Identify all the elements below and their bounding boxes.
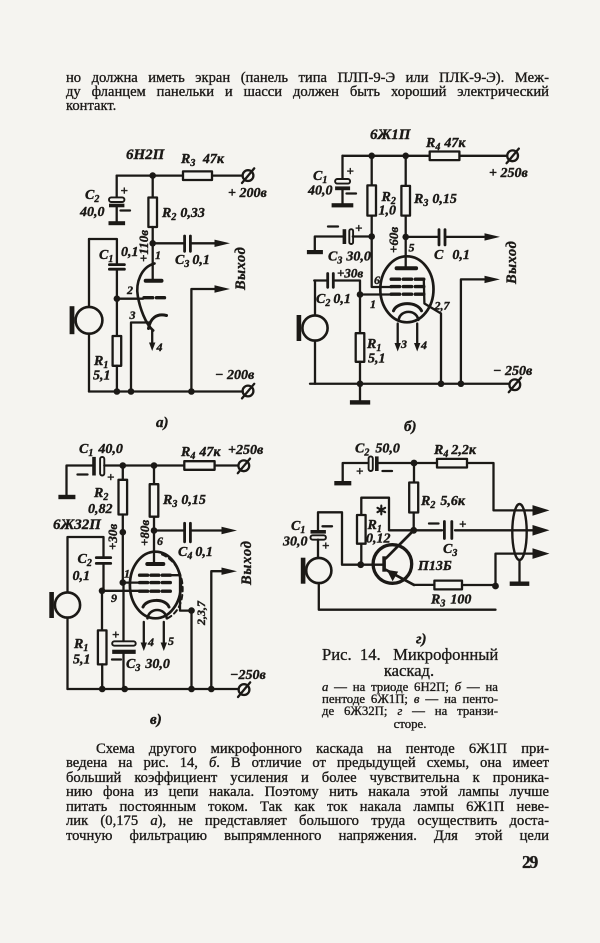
microphone M1 (70, 239, 103, 392)
svg-text:R42,2к: R42,2к (433, 443, 477, 460)
microphone M4 (301, 558, 332, 584)
terminal -250в (509, 378, 521, 393)
node R3-rail v (151, 462, 158, 469)
polarity - of C1 (347, 192, 357, 194)
output arrow 1 of b (485, 233, 501, 240)
cathode arc (394, 304, 422, 311)
svg-text:C250,0: C250,0 (355, 442, 400, 459)
grid dashes (144, 296, 165, 299)
svg-text:6Ж1П: 6Ж1П (370, 127, 412, 143)
emitter to R3 (414, 584, 434, 586)
anode bar v (147, 562, 163, 566)
terminal +250в v (238, 459, 250, 474)
grid row 3 (391, 293, 424, 296)
resistor R2 (367, 156, 376, 237)
resistor R2 (148, 176, 157, 244)
svg-text:б): б) (404, 419, 416, 435)
node grid junction b (357, 291, 364, 298)
node R1-rail b (357, 380, 364, 387)
grid row 2 v (140, 581, 171, 584)
wire cathode pin3 (131, 323, 149, 392)
terminal -250в v (238, 682, 250, 697)
chassis bar at C3 (307, 250, 323, 254)
node C1-rail (368, 153, 375, 160)
page number (522, 852, 537, 873)
polarity - of C1 (78, 473, 88, 475)
grid row 1 v (140, 574, 171, 577)
capacitor C4 0,1 (154, 523, 222, 542)
node anode-supply junction (149, 172, 156, 179)
chassis bar at C2 g (334, 481, 351, 485)
capacitor C coupling (406, 230, 484, 245)
resistor R1 (356, 295, 365, 384)
resistor R3 (183, 171, 212, 180)
heater hump (399, 312, 419, 320)
svg-text:5,1: 5,1 (93, 369, 111, 384)
label asterisk (378, 506, 386, 515)
svg-text:C3: C3 (443, 542, 457, 559)
bottom paragraph (66, 742, 549, 844)
wire control grid pin 1 (360, 293, 392, 295)
polarity - of C3 (328, 225, 338, 227)
svg-text:+: + (112, 627, 119, 642)
resistor R1 v (98, 591, 107, 689)
svg-text:C1: C1 (291, 519, 305, 536)
chassis bar under C1 (332, 203, 354, 207)
base lead (361, 564, 383, 566)
svg-text:C2: C2 (78, 552, 92, 569)
wire top rail b (343, 155, 508, 157)
envelope (130, 552, 181, 619)
node output-rail v (208, 686, 215, 693)
terminal -200в (242, 384, 254, 399)
output arrow 2 g (533, 525, 550, 536)
heater arrow pin 4 (151, 331, 153, 345)
wire C1 branch top (89, 239, 117, 263)
wire top rail v (123, 464, 239, 466)
svg-text:R3100: R3100 (430, 593, 471, 610)
emitter arrowhead (387, 570, 398, 581)
svg-text:+: + (347, 164, 354, 179)
node R3-rail (402, 153, 409, 160)
wire grid3 pin 9 v (102, 590, 140, 592)
polarity - of C3 v (112, 658, 121, 660)
svg-text:3: 3 (400, 337, 407, 351)
chassis bar under C2 (109, 221, 126, 225)
wire top rail a (117, 174, 243, 176)
cathode arc v (143, 600, 169, 607)
terminal +200в (242, 168, 254, 183)
wire screen feed pin 6 (372, 237, 392, 288)
svg-text:R3 47к: R3 47к (180, 152, 225, 169)
ground stub below cable (518, 560, 520, 582)
svg-text:6Ж32П: 6Ж32П (53, 517, 102, 533)
anode bar (146, 279, 162, 283)
heater arrow pin 4 v (143, 622, 145, 644)
output arrow 1 of v (222, 527, 238, 534)
svg-text:+ 200в: + 200в (228, 186, 267, 201)
wire output tap 2 (461, 279, 484, 383)
svg-text:R30,15: R30,15 (162, 493, 206, 510)
node anode of tube a (149, 240, 156, 247)
node collector g (410, 527, 417, 534)
svg-text:C30,1: C30,1 (175, 253, 210, 270)
wire bottom rail b (310, 383, 509, 385)
svg-text:+30в: +30в (105, 524, 120, 550)
svg-text:C1: C1 (99, 248, 113, 265)
svg-text:+: + (356, 464, 363, 479)
capacitor C1 40,0 (67, 457, 123, 495)
node cathode-rail b (438, 380, 445, 387)
envelope arc (137, 264, 154, 331)
svg-text:6: 6 (157, 534, 163, 548)
svg-text:+250в: +250в (228, 443, 264, 458)
shield dashed arc (162, 555, 183, 619)
svg-text:1: 1 (370, 297, 376, 311)
capacitor C2 50,0 g (343, 456, 414, 481)
ground stub b (359, 384, 361, 400)
node screen tap v (120, 529, 127, 536)
svg-text:+30в: +30в (337, 266, 363, 281)
svg-text:30,0: 30,0 (282, 535, 308, 550)
svg-text:4: 4 (147, 635, 154, 649)
svg-text:6: 6 (374, 273, 380, 287)
svg-text:6Н2П: 6Н2П (126, 147, 166, 163)
svg-text:5,1: 5,1 (368, 352, 386, 367)
heater arrow pin 5 v (163, 622, 165, 644)
svg-text:+ 250в: + 250в (489, 166, 528, 181)
svg-text:+60в: +60в (386, 227, 401, 253)
svg-text:C330,0: C330,0 (126, 657, 170, 674)
capacitor C2 0,1 v (68, 537, 111, 592)
node grid1 junction v (120, 579, 127, 586)
svg-text:R30,15: R30,15 (413, 192, 457, 209)
resistor R3 v (150, 466, 159, 531)
svg-text:Выход: Выход (233, 247, 249, 291)
svg-text:4: 4 (420, 338, 427, 352)
wire R4 to cable (467, 463, 533, 510)
envelope (380, 256, 433, 322)
pentode tube V3 (130, 531, 192, 652)
ground bar below cable (510, 582, 530, 586)
svg-text:R447к: R447к (180, 445, 221, 462)
output arrow 2 of v (222, 568, 238, 575)
svg-text:а): а) (156, 415, 169, 431)
wire R3 to node g (462, 584, 496, 586)
capacitor C1 40,0 electrolytic (335, 156, 350, 203)
polarity - of C2 (121, 209, 131, 211)
emitter lead diagonal (386, 570, 414, 585)
node screen-R2 junction (368, 233, 375, 240)
wire bottom rail g (319, 583, 496, 610)
microphone M2 (297, 281, 328, 384)
svg-text:9: 9 (111, 591, 117, 605)
resistor R3 (401, 156, 410, 237)
capacitor C1 30,0 g (311, 512, 358, 564)
svg-text:0,82: 0,82 (88, 502, 113, 517)
svg-text:R20,33: R20,33 (161, 206, 205, 223)
svg-text:1: 1 (124, 567, 130, 581)
grid row 2 (391, 285, 424, 288)
terminal +250в (507, 149, 519, 164)
node output-rail (188, 388, 195, 395)
heater arrow pin 3 (397, 324, 399, 345)
node C3-rail v (121, 686, 128, 693)
resistor R1 g with loop to collector (357, 498, 414, 565)
svg-text:5,1: 5,1 (73, 653, 91, 668)
heater arrow pin 4 (416, 324, 418, 345)
node shield-rail v (188, 686, 195, 693)
pentode tube V2 (380, 237, 450, 384)
wire grid1 pin 1 v (123, 581, 140, 583)
svg-text:2,7: 2,7 (434, 299, 451, 313)
node R1-rail (114, 388, 121, 395)
base bar (382, 556, 386, 571)
heater hump v (148, 610, 167, 618)
svg-text:+: + (107, 470, 114, 485)
wire C1 to grid node (116, 271, 118, 299)
wire output tap 2 v (211, 571, 222, 689)
svg-text:5: 5 (168, 634, 174, 648)
capacitor C3 coupling (153, 236, 215, 251)
svg-text:R2: R2 (93, 486, 108, 503)
anode bar (397, 266, 417, 270)
cathode hook (149, 315, 167, 329)
svg-text:R25,6к: R25,6к (420, 494, 466, 511)
svg-text:− 250в: − 250в (493, 364, 533, 379)
svg-text:40,0: 40,0 (307, 184, 333, 199)
node anode R3 junction (402, 234, 409, 241)
anode lead (405, 237, 407, 266)
svg-text:C330,0: C330,0 (328, 250, 371, 267)
svg-text:R447к: R447к (425, 136, 466, 153)
ground bar b (350, 400, 370, 404)
svg-text:П13Б: П13Б (417, 559, 452, 574)
capacitor C3 30,0 (315, 229, 372, 250)
output arrow 2 of a (215, 285, 231, 292)
chassis bar at C1 (58, 495, 75, 499)
svg-text:− 200в: − 200в (215, 368, 255, 383)
output arrow 2 of b (485, 276, 501, 283)
svg-text:−250в: −250в (230, 668, 266, 683)
node R1-rail v (99, 686, 106, 693)
node C2-R2-R4 g (411, 460, 418, 467)
pin 1 anode lead (152, 243, 154, 279)
svg-text:+80в: +80в (137, 520, 152, 546)
triode tube V1 (126, 243, 167, 354)
svg-text:40,0: 40,0 (79, 205, 105, 220)
svg-text:2,3,7: 2,3,7 (194, 600, 208, 626)
output arrow 1 of a (215, 240, 231, 247)
wire output tap 2 (191, 289, 215, 392)
svg-text:R1: R1 (73, 637, 88, 654)
node shield-cathode v (188, 607, 195, 614)
cable shield oval (512, 504, 526, 560)
svg-text:1: 1 (155, 248, 161, 262)
svg-text:Выход: Выход (239, 540, 255, 586)
wire bottom rail v (68, 688, 239, 690)
output arrow 1 g (533, 505, 550, 516)
svg-text:C0,1: C0,1 (434, 248, 470, 263)
wire grid feed (117, 298, 143, 300)
polarity - of C1 g (323, 525, 333, 527)
svg-text:0,1: 0,1 (73, 569, 91, 584)
node grid junction (114, 295, 121, 302)
capacitor C2 40,0 electrolytic (109, 176, 124, 222)
grid1 tail pin 8 (170, 575, 191, 610)
svg-text:+: + (322, 538, 329, 553)
polarity - of C3 g (429, 522, 439, 524)
svg-text:0,1: 0,1 (121, 245, 139, 260)
svg-text:5: 5 (409, 241, 415, 255)
svg-text:в): в) (150, 712, 162, 728)
node cathode-rail (128, 388, 135, 395)
grid row 3 v (140, 590, 171, 593)
node output-rail b (458, 380, 465, 387)
anode lead v (153, 531, 155, 563)
svg-text:1,0: 1,0 (379, 204, 397, 219)
wire to R4 (414, 462, 437, 464)
top paragraph (66, 72, 549, 114)
wire third line g (496, 554, 534, 586)
capacitor C2 0,1 (314, 274, 360, 295)
svg-text:2: 2 (126, 283, 133, 297)
grid row 1 (391, 278, 424, 281)
resistor R4 (430, 152, 460, 161)
transistor circle (373, 545, 412, 584)
svg-text:+: + (459, 517, 466, 532)
resistor R4 (184, 461, 214, 470)
resistor R2 g (409, 463, 418, 530)
svg-text:C2: C2 (85, 188, 99, 205)
capacitor C3 coupling g (414, 522, 533, 539)
transistor Q1 P13B (361, 531, 414, 585)
node base junction g (357, 561, 364, 568)
capacitor C1 0,1 (109, 265, 124, 270)
node R2-rail v (120, 462, 127, 469)
output arrow 3 g (533, 548, 550, 559)
svg-text:+: + (121, 183, 128, 198)
collector lead diagonal (386, 531, 413, 558)
caption legend (322, 681, 498, 730)
resistor R1 (113, 299, 122, 392)
svg-text:4: 4 (156, 340, 163, 354)
node anode junction v (151, 527, 158, 534)
svg-text:Выход: Выход (504, 241, 520, 285)
microphone M3 (49, 592, 80, 689)
svg-text:+: + (355, 221, 362, 236)
polarity - of C2 g (383, 470, 393, 472)
node grid3 junction v (99, 588, 106, 595)
resistor R3 g (434, 581, 462, 590)
capacitor C3 30,0 v (112, 583, 136, 689)
svg-text:3: 3 (129, 308, 136, 322)
resistor R2 v (119, 466, 128, 583)
wire bottom rail a (89, 390, 243, 392)
wire shield to rail v (190, 611, 192, 689)
node R3-return g (492, 583, 499, 590)
resistor R4 g (437, 459, 467, 468)
svg-text:C40,1: C40,1 (178, 545, 213, 562)
caption title (322, 647, 496, 678)
svg-text:C20,1: C20,1 (316, 292, 351, 309)
suppressor tie to cathode pins 2,7 (424, 279, 441, 384)
